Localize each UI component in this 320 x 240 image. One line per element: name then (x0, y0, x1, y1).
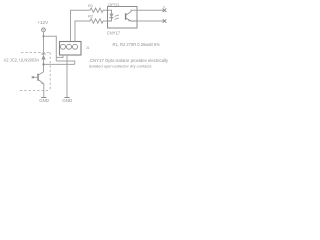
phototransistor inside opto (125, 13, 127, 20)
wire: +12V down to diode (43, 32, 45, 54)
resistor R1 (89, 8, 105, 12)
emitter stroke with arrow (38, 79, 44, 83)
svg-text:R1, R2 270R 0.25watt 5%: R1, R2 270R 0.25watt 5% (113, 42, 161, 47)
J1 pin circle 3 (73, 44, 78, 49)
junction node at collector rail (42, 63, 44, 65)
J1 pin circle 1 (61, 44, 66, 49)
wire: collector node horizontal y64 (44, 63, 75, 65)
collector stroke (38, 72, 44, 75)
dashed boundary top (21, 51, 50, 53)
svg-text:x: x (163, 5, 165, 9)
svg-text:isolated open-collector dry co: isolated open-collector dry contacts (89, 64, 152, 69)
svg-text:R1: R1 (88, 3, 94, 8)
wire: opto emitter out (137, 20, 165, 22)
base wire (33, 76, 38, 78)
wire: emitter down to ground (43, 84, 45, 98)
wire: R2 to opto pin2 (105, 20, 108, 22)
svg-text:J1: J1 (86, 46, 90, 50)
svg-text:GND: GND (39, 98, 49, 103)
transistor Q1 (ULN2003A darlington) (37, 74, 39, 81)
input stub cross (32, 76, 34, 78)
J1 pin circle 2 (67, 44, 72, 49)
svg-text:OPTO: OPTO (108, 2, 119, 7)
wire: J pin1 stub down (56, 55, 63, 57)
wire: diode anode down to collector node (43, 60, 45, 72)
LED inside opto (108, 10, 112, 13)
wire: +12V branch right (44, 36, 57, 61)
svg-text:CNY17: CNY17 (107, 31, 121, 36)
svg-text:R2: R2 (88, 13, 94, 18)
connector J1 (3-pin terminal block) (60, 42, 82, 56)
dashed boundary right vertical (49, 52, 51, 90)
diode D1 (clamp to +12V) (41, 53, 45, 55)
resistor R2 (89, 19, 105, 23)
ground GND1 (41, 97, 46, 99)
dashed boundary bottom (20, 89, 50, 91)
svg-text:,CNY17 Opto isolator provides: ,CNY17 Opto isolator provides electrical… (89, 58, 169, 63)
no-connect X on collector wire end (163, 8, 167, 12)
wire: opto collector out (137, 9, 165, 11)
wire: net from J pin2 up to R1 (71, 10, 89, 41)
svg-text:GND: GND (62, 98, 72, 103)
photon arrow 2 (115, 18, 119, 19)
op-amp U1 (optocoupler OPTO body) (108, 7, 138, 29)
wire: J pin2 down to ground (66, 55, 68, 97)
wire: R1 to opto pin1 (105, 9, 108, 11)
junction node on +12V rail (42, 35, 44, 37)
svg-text:A2 JC2, ULN2003A: A2 JC2, ULN2003A (4, 57, 40, 62)
ground GND2 (64, 97, 69, 99)
wire: horizontal run y61 (56, 61, 74, 64)
wire: net from J pin3 up to R2 (75, 21, 89, 42)
photon arrow 1 (115, 15, 119, 16)
no-connect X on emitter wire end (163, 19, 167, 23)
svg-text:+12V: +12V (37, 20, 49, 25)
